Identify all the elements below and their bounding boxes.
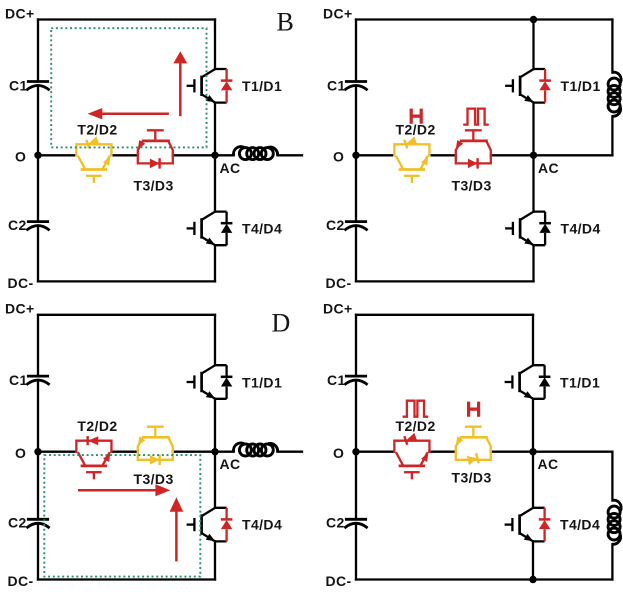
wire P3 DC+ top rail [38, 314, 215, 316]
svg-text:AC: AC [220, 456, 241, 472]
transistor T3 P1 IGBT [138, 130, 173, 163]
wire P3 left rail segment DC+ to C1 [37, 315, 39, 376]
wire P1 inner rail T1 to T4 [214, 103, 216, 212]
diode D2 P2 [404, 136, 417, 148]
wire P1 inductor to open end [278, 154, 303, 156]
wire P2 DC+ top rail [356, 18, 612, 20]
transistor T3 P4 IGBT [456, 427, 491, 460]
diode D1 P4 [539, 365, 551, 399]
svg-text:O: O [15, 149, 26, 165]
svg-text:DC-: DC- [8, 275, 34, 291]
wire P1 DC+ top rail [38, 18, 215, 20]
svg-text:T1/D1: T1/D1 [561, 78, 601, 94]
wire P4 left rail segment C2 to DC- [355, 524, 357, 579]
svg-text:DC+: DC+ [5, 5, 35, 21]
diode D4 P1 [221, 212, 233, 246]
transistor T3 P2 IGBT [456, 130, 491, 163]
svg-text:T4/D4: T4/D4 [242, 517, 282, 533]
wire P2 inner rail T1 to T4 [532, 103, 534, 212]
current arrow vertical up P1 [173, 51, 187, 116]
current arrow vertical up P3 [170, 497, 184, 561]
transistor T4 P3 IGBT [187, 508, 227, 542]
wire P1 inner rail T4 to DC- [214, 245, 216, 281]
svg-text:T4/D4: T4/D4 [560, 517, 600, 533]
wire P2 inner rail top to T1 [532, 20, 534, 70]
wire P4 inner rail T4 to DC- [532, 541, 534, 579]
wire P2 right branch vertical lower [611, 116, 613, 155]
wire P4 inner rail top to T1 [532, 315, 534, 365]
capacitor C2 P3 [26, 519, 49, 528]
transistor T3 P3 IGBT [138, 427, 173, 460]
capacitor C1 P1 [26, 82, 49, 91]
svg-text:AC: AC [538, 456, 559, 472]
svg-text:C2: C2 [8, 217, 27, 233]
diode D3 P1 [150, 158, 160, 168]
wire P4 inner rail T1 to T4 [532, 399, 534, 508]
diode D3 P4 [467, 453, 479, 465]
svg-text:T1/D1: T1/D1 [560, 374, 600, 390]
transistor T2 P2 IGBT [394, 144, 429, 183]
svg-text:T2/D2: T2/D2 [77, 418, 117, 434]
svg-text:D: D [272, 309, 291, 338]
transistor T2 P4 IGBT [394, 441, 429, 480]
svg-text:O: O [333, 445, 344, 461]
wire P2 right branch vertical upper [611, 20, 613, 73]
svg-text:T3/D3: T3/D3 [134, 471, 174, 487]
node AC P4 junction dot [529, 448, 536, 455]
svg-text:T1/D1: T1/D1 [242, 78, 282, 94]
wire P3 inner rail T1 to T4 [214, 399, 216, 508]
node AC P3 junction dot [211, 448, 218, 455]
diode D2 P3 [88, 436, 99, 445]
svg-text:T2/D2: T2/D2 [396, 122, 436, 138]
wire P3 inductor to open end [278, 451, 303, 453]
svg-text:T3/D3: T3/D3 [134, 178, 174, 194]
wire P3 inner rail T4 to DC- [214, 541, 216, 579]
svg-text:T2/D2: T2/D2 [77, 122, 117, 138]
svg-text:T4/D4: T4/D4 [242, 221, 282, 237]
wire P3 AC node to inductor [215, 451, 234, 453]
node AC P1 junction dot [211, 152, 218, 159]
wire P4 left rail segment DC+ to C1 [355, 315, 357, 376]
capacitor C1 P4 [344, 376, 367, 385]
svg-text:C2: C2 [8, 515, 27, 531]
svg-text:T3/D3: T3/D3 [452, 178, 492, 194]
svg-text:C1: C1 [327, 372, 346, 388]
svg-text:DC-: DC- [326, 275, 352, 291]
wire P4 left rail segment C1 to C2 [355, 381, 357, 519]
svg-text:C1: C1 [327, 78, 346, 94]
capacitor C2 P2 [344, 222, 367, 231]
wire P2 T3 to AC node [491, 154, 534, 156]
diode D2 P4 [404, 433, 417, 445]
wire P4 AC node to right branch [533, 451, 612, 453]
wire P3 left rail segment C2 to DC- [37, 524, 39, 579]
junction dot P4 bottom rail / inner rail [529, 576, 536, 583]
wire P2 left rail segment C2 to DC- [355, 227, 357, 282]
current arrow horizontal right P3 [78, 484, 170, 496]
inductor L P4 vertical [608, 500, 621, 544]
wire P1 left rail segment C2 to DC- [37, 227, 39, 282]
inductor L P2 vertical [608, 72, 621, 116]
wire P1 T3 to AC node [173, 154, 215, 156]
wire P4 right branch vertical lower [611, 544, 613, 579]
svg-text:AC: AC [538, 160, 559, 176]
wire P2 T2 to T3 [429, 154, 455, 156]
current arrow horizontal left P1 [88, 108, 169, 119]
svg-text:DC-: DC- [326, 573, 352, 589]
transistor T2 P1 IGBT [76, 144, 111, 183]
svg-text:C2: C2 [326, 217, 345, 233]
diode D3 P3 [150, 455, 160, 465]
current loop dashed box P1 [51, 28, 206, 147]
svg-text:T4/D4: T4/D4 [561, 221, 601, 237]
transistor T1 P2 IGBT [505, 69, 545, 103]
capacitor C2 P4 [344, 519, 367, 528]
wire P1 left rail segment DC+ to C1 [37, 20, 39, 82]
diode D3 P2 [468, 158, 478, 168]
wire P3 T2 to T3 [111, 451, 137, 453]
wire P3 inner rail top to T1 [214, 315, 216, 365]
inductor L P1 [233, 147, 277, 160]
svg-text:T2/D2: T2/D2 [396, 418, 436, 434]
current loop dashed box P3 [44, 455, 200, 576]
wire P4 O node to T2 [356, 451, 394, 453]
wire P1 left rail segment C1 to C2 [37, 86, 39, 221]
node AC P2 junction dot [530, 152, 537, 159]
diode D4 P3 [221, 508, 233, 542]
wire P2 DC- bottom rail [356, 280, 534, 282]
transistor T2 P3 IGBT [76, 441, 111, 480]
wire P2 O node to T2 [356, 154, 394, 156]
svg-text:C1: C1 [9, 78, 28, 94]
diode D1 P2 [539, 69, 551, 103]
svg-text:C1: C1 [9, 372, 28, 388]
svg-text:B: B [277, 8, 294, 37]
transistor T4 P4 IGBT [505, 508, 545, 542]
transistor T4 P2 IGBT [505, 212, 545, 246]
capacitor C2 P1 [26, 222, 49, 231]
diode D4 P2 [539, 212, 551, 246]
gate pulse waveform for T2 P4 [403, 401, 429, 417]
junction dot P2 top rail / inner rail [530, 16, 537, 23]
gate signal H label for T3 P4 [469, 402, 479, 417]
svg-text:AC: AC [220, 160, 241, 176]
wire P4 T2 to T3 [429, 451, 455, 453]
node O P4 junction dot [352, 448, 359, 455]
diode D1 P1 [221, 69, 233, 103]
transistor T1 P3 IGBT [187, 365, 227, 399]
transistor T4 P1 IGBT [187, 212, 227, 246]
svg-text:DC+: DC+ [323, 301, 353, 317]
wire P2 left rail segment C1 to C2 [355, 86, 357, 221]
wire P3 T3 to AC node [173, 451, 215, 453]
svg-text:DC+: DC+ [323, 5, 353, 21]
node O P2 junction dot [352, 152, 359, 159]
diode D2 P1 [86, 136, 99, 148]
wire P3 left rail segment C1 to C2 [37, 381, 39, 519]
svg-text:O: O [333, 149, 344, 165]
wire P1 DC- bottom rail [38, 280, 215, 282]
capacitor C1 P2 [344, 82, 367, 91]
wire P4 DC- bottom rail [356, 578, 612, 580]
svg-text:DC-: DC- [8, 573, 34, 589]
node O P1 junction dot [34, 152, 41, 159]
svg-text:T1/D1: T1/D1 [242, 374, 282, 390]
wire P2 AC node to right branch [534, 154, 613, 156]
wire P1 inner rail top to T1 [214, 20, 216, 70]
wire P2 left rail segment DC+ to C1 [355, 20, 357, 82]
svg-text:DC+: DC+ [5, 301, 35, 317]
transistor T1 P4 IGBT [505, 365, 545, 399]
svg-text:O: O [15, 445, 26, 461]
wire P1 AC node to inductor [215, 154, 234, 156]
capacitor C1 P3 [26, 376, 49, 385]
wire P3 O node to T2 [38, 451, 76, 453]
transistor T1 P1 IGBT [187, 69, 227, 103]
svg-text:T3/D3: T3/D3 [452, 470, 492, 486]
gate signal H label for T2 P2 [411, 109, 421, 124]
diode D4 P4 [539, 508, 551, 542]
wire P4 T3 to AC node [491, 451, 533, 453]
wire P1 T2 to T3 [111, 154, 137, 156]
wire P3 DC- bottom rail [38, 578, 215, 580]
wire P2 inner rail T4 to DC- [532, 245, 534, 281]
wire P4 DC+ top rail [356, 314, 533, 316]
gate pulse waveform for T3 P2 [463, 109, 489, 125]
diode D1 P3 [221, 365, 233, 399]
svg-text:C2: C2 [326, 515, 345, 531]
inductor L P3 [233, 443, 277, 456]
wire P1 O node to T2 [38, 154, 76, 156]
node O P3 junction dot [34, 448, 41, 455]
wire P4 right branch vertical upper [611, 452, 613, 501]
